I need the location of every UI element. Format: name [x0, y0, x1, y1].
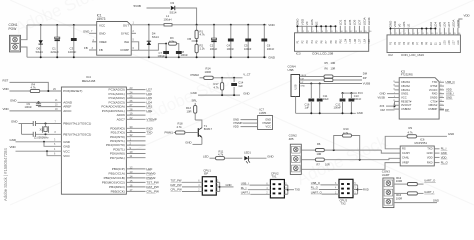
resistor R2	[195, 44, 198, 53]
svg-text:GND: GND	[63, 140, 71, 144]
svg-text:VDD: VDD	[441, 155, 447, 159]
svg-text:LED1: LED1	[244, 150, 251, 154]
IC1 pin OUT wire	[131, 24, 149, 26]
svg-text:LED: LED	[203, 154, 208, 158]
svg-text:CBUS1: CBUS1	[401, 88, 410, 92]
svg-text:FB: FB	[188, 37, 192, 41]
svg-text:MCP2551: MCP2551	[415, 141, 428, 145]
svg-text:GND: GND	[427, 151, 433, 155]
svg-text:LD5: LD5	[348, 19, 352, 25]
svg-text:T1: T1	[204, 124, 208, 128]
svg-text:ADC7: ADC7	[117, 117, 125, 121]
svg-text:CTS#: CTS#	[431, 99, 438, 103]
wire r13 to T1	[194, 113, 196, 120]
svg-text:R6: R6	[325, 67, 329, 71]
wire VIN top rail	[27, 24, 97, 26]
svg-text:PC6(/RESET): PC6(/RESET)	[63, 89, 82, 93]
svg-text:LEDA: LEDA	[452, 20, 456, 28]
svg-text:GND: GND	[267, 155, 273, 159]
svg-text:CON_LCD_1616: CON_LCD_1616	[401, 53, 424, 57]
svg-text:LD2: LD2	[429, 22, 433, 28]
svg-text:LEDA: LEDA	[362, 17, 366, 25]
svg-text:PB0(ICP): PB0(ICP)	[112, 167, 125, 171]
diode D6	[39, 40, 43, 44]
net 3V3 caps	[343, 92, 358, 94]
svg-text:VCC: VCC	[266, 124, 272, 128]
svg-text:LE: LE	[315, 22, 319, 26]
microcontroller IC4 body	[61, 87, 126, 194]
svg-text:LD6: LD6	[448, 40, 451, 45]
svg-text:GND: GND	[296, 18, 300, 26]
diode D3	[171, 6, 175, 10]
wire led2	[225, 157, 243, 159]
resistor R13	[194, 105, 197, 113]
svg-text:RTS#: RTS#	[431, 84, 438, 88]
svg-text:LD5: LD5	[349, 38, 352, 43]
svg-text:4.7k: 4.7k	[214, 86, 220, 90]
wire cpu3 rxd	[358, 189, 363, 191]
node gnd C1	[56, 56, 58, 58]
wire led3	[249, 157, 267, 159]
wire vcc pin4	[16, 150, 62, 152]
wire t1 gnd	[193, 143, 202, 145]
svg-text:100R: 100R	[396, 196, 403, 200]
svg-text:CANH: CANH	[402, 151, 410, 155]
node comp	[165, 43, 167, 45]
svg-text:PWM1: PWM1	[165, 130, 174, 134]
svg-text:DP: DP	[363, 76, 367, 80]
svg-text:R14: R14	[206, 66, 211, 70]
wire uart2b	[417, 192, 423, 194]
svg-text:UART: UART	[382, 173, 390, 177]
resistor R4	[30, 89, 40, 92]
svg-text:GND: GND	[265, 117, 271, 121]
wire usb dp2	[333, 79, 362, 81]
svg-text:LEDK: LEDK	[367, 17, 371, 25]
svg-text:GND: GND	[243, 92, 249, 96]
wire srl	[194, 103, 196, 105]
svg-text:SS14: SS14	[36, 50, 44, 54]
capacitor C13	[350, 93, 352, 98]
svg-text:DP: DP	[445, 108, 449, 112]
svg-text:100nF: 100nF	[267, 47, 275, 51]
svg-text:1uF: 1uF	[238, 84, 243, 88]
svg-text:100uF: 100uF	[210, 47, 218, 51]
wire D4 drop	[148, 25, 150, 57]
wire usb dm	[300, 76, 324, 78]
wire C3 drop	[73, 25, 75, 57]
svg-text:LD4: LD4	[344, 38, 347, 43]
svg-text:PD7(AIN1): PD7(AIN1)	[110, 156, 125, 160]
svg-text:CBUS2: CBUS2	[428, 103, 437, 107]
svg-text:100nF: 100nF	[354, 97, 362, 101]
svg-text:VREF: VREF	[99, 40, 107, 44]
svg-text:GND: GND	[185, 140, 191, 144]
svg-text:VTEMP: VTEMP	[146, 117, 156, 121]
svg-text:LD5: LD5	[444, 40, 447, 45]
svg-text:LD4: LD4	[343, 19, 347, 25]
wire gnd pin5	[44, 142, 61, 147]
svg-text:GND: GND	[83, 29, 89, 33]
svg-text:SYNC: SYNC	[121, 31, 129, 35]
IC1 pin SYNC stub	[131, 32, 136, 34]
capacitor C1	[55, 37, 60, 39]
svg-text:X1: X1	[40, 128, 44, 132]
node FB	[196, 40, 198, 42]
svg-text:CPL_PW: CPL_PW	[146, 189, 159, 193]
node gnd D4	[148, 56, 150, 58]
svg-text:VDD: VDD	[268, 23, 275, 27]
svg-text:3V3: 3V3	[358, 91, 363, 95]
wire AGND	[18, 101, 62, 103]
wire pwm gnd	[198, 94, 240, 96]
svg-text:R10: R10	[344, 127, 349, 131]
capacitor C12	[342, 93, 344, 98]
resistor R10	[334, 136, 342, 151]
connector CPU2	[270, 180, 284, 198]
svg-text:VUSB: VUSB	[363, 81, 371, 85]
wire 485 B3	[389, 158, 400, 159]
svg-text:OUT: OUT	[123, 23, 129, 27]
connector CPU3	[339, 179, 353, 197]
svg-text:4.7k: 4.7k	[169, 39, 175, 43]
svg-text:LD5: LD5	[438, 22, 442, 28]
svg-text:VDD: VDD	[464, 14, 470, 18]
svg-text:DAT_PW: DAT_PW	[146, 185, 159, 189]
svg-text:PB1(OC1A): PB1(OC1A)	[109, 172, 125, 176]
svg-text:100R: 100R	[205, 70, 212, 74]
node gnd D6	[40, 56, 42, 58]
svg-text:RXD: RXD	[363, 187, 369, 191]
svg-text:10uF: 10uF	[323, 97, 329, 101]
wire uart3	[394, 202, 437, 204]
svg-text:100pF: 100pF	[158, 54, 166, 58]
svg-text:LRE: LRE	[146, 109, 152, 113]
svg-text:VTEMP: VTEMP	[262, 121, 271, 125]
wire gnd rail bottom	[27, 56, 266, 58]
wire comp net	[139, 44, 166, 51]
svg-text:R6: R6	[317, 142, 321, 146]
wire uart2	[394, 192, 408, 194]
svg-text:VCC: VCC	[401, 95, 407, 99]
svg-text:GND: GND	[10, 138, 17, 142]
svg-text:P10: P10	[340, 38, 343, 43]
svg-text:CPL_PW: CPL_PW	[171, 188, 183, 192]
temp sensor IC7 body	[258, 116, 273, 130]
IC3 tie wire	[297, 25, 335, 27]
svg-text:GND: GND	[380, 92, 386, 96]
wire C1 drop	[56, 25, 58, 57]
resistor R16	[407, 192, 417, 195]
svg-text:CBUS3: CBUS3	[401, 80, 410, 84]
crystal X1	[44, 127, 47, 132]
svg-text:LD7: LD7	[447, 22, 451, 28]
svg-text:1.2k: 1.2k	[200, 47, 206, 51]
svg-text:GND: GND	[191, 91, 197, 95]
svg-text:SS14: SS14	[152, 35, 159, 39]
svg-text:GND: GND	[63, 144, 71, 148]
wire xtal row1	[19, 123, 34, 125]
svg-text:LEK: LEK	[368, 38, 371, 43]
svg-text:DAT_PW: DAT_PW	[171, 183, 183, 187]
svg-text:100nF: 100nF	[227, 47, 235, 51]
svg-text:LED: LED	[146, 167, 153, 171]
wire r18 to base	[185, 132, 198, 134]
svg-text:LD7: LD7	[453, 40, 456, 45]
node rail C3	[73, 24, 75, 26]
resistor R5	[324, 75, 333, 78]
resistor R18	[175, 131, 185, 134]
wire R4 to pin29	[40, 90, 62, 92]
connector CON3	[383, 178, 394, 208]
svg-text:100nF: 100nF	[334, 105, 342, 109]
capacitor C10	[32, 121, 34, 126]
wire led1	[210, 157, 216, 159]
svg-text:GND: GND	[441, 151, 447, 155]
svg-text:VREF: VREF	[402, 160, 409, 164]
svg-text:VDD: VDD	[3, 107, 9, 111]
IC2 pin stubs	[389, 28, 391, 35]
svg-text:R9: R9	[409, 126, 413, 130]
svg-text:VCCIO: VCCIO	[429, 88, 437, 92]
wire CON1-2 to gnd rail	[21, 47, 28, 57]
svg-text:USB_O: USB_O	[311, 181, 320, 185]
IC1 pin FB wire	[89, 49, 97, 51]
svg-text:COMP: COMP	[120, 48, 129, 52]
connector CON4 body	[291, 75, 300, 97]
svg-text:TXD: TXD	[146, 131, 153, 135]
svg-text:LD1: LD1	[338, 19, 342, 25]
svg-text:10R: 10R	[331, 61, 336, 65]
svg-text:GND: GND	[300, 85, 305, 87]
svg-text:C14: C14	[238, 80, 243, 84]
svg-text:V_CT: V_CT	[243, 73, 250, 77]
wire AREF	[44, 106, 61, 108]
svg-text:R5: R5	[325, 61, 329, 65]
wire r14 out	[213, 77, 242, 79]
resistor R17	[221, 78, 223, 82]
svg-text:INH: INH	[124, 40, 129, 44]
svg-text:LM35: LM35	[259, 111, 266, 115]
wire cpu1 gnd	[220, 186, 234, 188]
connector CPU1	[202, 177, 216, 195]
resistor R12	[407, 183, 417, 186]
svg-text:USBDM: USBDM	[401, 107, 411, 111]
resistor R6	[315, 149, 324, 152]
svg-text:LD7: LD7	[358, 19, 362, 25]
capacitor C4	[230, 24, 232, 26]
svg-text:LRS: LRS	[402, 22, 406, 28]
wire CON1-1 to rail	[21, 25, 28, 40]
node rail C1	[56, 24, 58, 26]
svg-text:R17: R17	[214, 82, 219, 86]
svg-text:220uF: 220uF	[51, 50, 60, 54]
svg-text:4.7k: 4.7k	[200, 33, 206, 37]
svg-text:Adobe Stock | #1580547284: Adobe Stock | #1580547284	[3, 148, 8, 201]
svg-text:LD6: LD6	[443, 22, 447, 28]
svg-text:100nF: 100nF	[68, 50, 77, 54]
svg-text:VUSB: VUSB	[378, 95, 386, 99]
svg-text:GND: GND	[10, 98, 17, 102]
capacitor C7	[165, 44, 167, 58]
wire VDD to R4	[10, 90, 31, 92]
svg-text:GND1: GND1	[401, 92, 409, 96]
svg-text:VDD: VDD	[10, 145, 16, 149]
capacitor C9	[38, 102, 40, 103]
svg-text:VCC: VCC	[99, 23, 105, 27]
svg-text:USB_I: USB_I	[446, 92, 454, 96]
connector CON2	[290, 144, 301, 174]
svg-text:TST_PW: TST_PW	[171, 179, 182, 183]
wire xtal row2	[22, 133, 34, 135]
CPU3 right tie	[353, 184, 358, 186]
svg-text:LD6: LD6	[354, 38, 357, 43]
svg-text:SRL: SRL	[192, 99, 198, 103]
svg-text:POW: POW	[9, 27, 18, 31]
resistor R7	[315, 158, 324, 161]
wire uart1	[394, 183, 408, 185]
svg-text:TXD: TXD	[432, 80, 437, 84]
connector IC2 body	[387, 35, 460, 53]
svg-text:CANL: CANL	[402, 155, 410, 159]
node rail D6	[40, 24, 42, 26]
wire FB drop	[196, 25, 198, 57]
svg-text:LEA: LEA	[457, 40, 460, 45]
wire AVCC	[10, 110, 62, 112]
wire usb gnd drop	[295, 97, 297, 114]
node out D4	[148, 24, 150, 26]
svg-text:FT232RS: FT232RS	[401, 73, 413, 77]
svg-text:DM: DM	[381, 108, 386, 112]
svg-text:R7: R7	[317, 162, 321, 166]
svg-text:100R: 100R	[396, 179, 403, 183]
transistor T1	[197, 128, 199, 137]
svg-text:3V3OUT: 3V3OUT	[401, 103, 412, 107]
svg-text:4.7k: 4.7k	[177, 125, 183, 129]
svg-text:VCC: VCC	[63, 149, 70, 153]
wire usb dp	[300, 79, 324, 81]
diode D4	[147, 41, 151, 45]
svg-text:FB: FB	[84, 46, 88, 50]
wire usb dm2	[333, 76, 362, 78]
connector CON1	[10, 35, 21, 52]
node out main	[196, 24, 198, 26]
node gnd R2	[196, 56, 198, 58]
svg-text:FB: FB	[99, 48, 103, 52]
resistor R1	[195, 30, 198, 39]
svg-text:RL_O: RL_O	[311, 186, 318, 190]
IC3 pin stubs	[296, 26, 298, 33]
svg-text:GND: GND	[233, 117, 239, 121]
IC4 right pin stubs and nets	[126, 89, 145, 91]
IC1 pin VREF stub	[92, 41, 97, 43]
capacitor C11	[319, 84, 321, 99]
svg-text:TX1: TX1	[271, 174, 277, 178]
wire pwm1	[174, 132, 176, 134]
svg-text:VCC: VCC	[63, 154, 70, 158]
wire gnd pin3	[16, 141, 62, 143]
wire usb vbus	[300, 83, 363, 85]
svg-text:10R: 10R	[331, 67, 336, 71]
wire usb gnd rail	[296, 112, 356, 114]
svg-text:10R: 10R	[187, 109, 192, 113]
wire 485 gnd	[301, 163, 400, 170]
svg-text:GND: GND	[268, 55, 276, 59]
svg-text:CON_LCD_208: CON_LCD_208	[312, 52, 334, 56]
wire r9 gnd	[417, 135, 447, 137]
capacitor C2	[213, 24, 215, 26]
wire r9 left	[385, 136, 407, 149]
op-amp U1 IC1 body	[97, 22, 132, 56]
svg-text:USB_O: USB_O	[446, 80, 455, 84]
svg-text:VDD: VDD	[233, 124, 239, 128]
svg-text:RXD: RXD	[432, 92, 438, 96]
svg-text:3V3: 3V3	[380, 104, 385, 108]
svg-text:USB: USB	[295, 84, 298, 89]
svg-text:USBDP: USBDP	[428, 107, 437, 111]
can IC6 body	[400, 146, 434, 166]
svg-text:GND: GND	[448, 132, 454, 136]
svg-text:RS: RS	[402, 147, 406, 151]
svg-text:VDD: VDD	[300, 18, 304, 25]
svg-text:4.7k: 4.7k	[408, 130, 414, 134]
svg-text:100uH: 100uH	[164, 17, 172, 21]
svg-text:DM: DM	[363, 71, 368, 75]
svg-text:PB6(XTAL1/TOSC1): PB6(XTAL1/TOSC1)	[63, 122, 91, 126]
wire 485 B2	[324, 159, 389, 161]
svg-text:CBUS2: CBUS2	[401, 84, 410, 88]
svg-text:PWM2: PWM2	[146, 176, 155, 180]
wire RST	[10, 82, 49, 91]
IC2 tie wire	[390, 28, 435, 30]
svg-text:PWM2: PWM2	[191, 73, 200, 77]
resistor R9	[407, 135, 417, 138]
svg-text:GND: GND	[389, 20, 393, 28]
wire 485 B	[301, 159, 315, 161]
LED LED1	[244, 156, 248, 160]
wire 5V0B	[147, 7, 171, 9]
svg-text:D3: D3	[171, 1, 175, 5]
svg-text:BC817: BC817	[204, 127, 213, 131]
IC1 pin INH wire	[131, 42, 139, 50]
svg-text:VTEMP: VTEMP	[233, 121, 243, 125]
svg-text:LE: LE	[407, 24, 411, 28]
IC6 right stubs	[434, 148, 439, 150]
resistor R11	[216, 157, 225, 160]
wire xtal gnd vertical	[21, 124, 23, 135]
svg-text:PB5(SCK): PB5(SCK)	[111, 190, 125, 194]
resistor R3	[169, 42, 177, 45]
capacitor C6	[263, 24, 265, 26]
svg-text:USB: USB	[288, 68, 294, 72]
svg-text:4.7k: 4.7k	[218, 153, 224, 157]
svg-text:UART_O: UART_O	[424, 179, 435, 183]
svg-text:PB7(XTAL2/TOSC2): PB7(XTAL2/TOSC2)	[63, 132, 91, 136]
svg-text:100nF: 100nF	[25, 105, 33, 109]
IC5 pin stubs	[395, 81, 400, 83]
resistor R14	[204, 76, 214, 79]
svg-text:GND: GND	[433, 199, 439, 203]
svg-text:TST_PW: TST_PW	[146, 180, 158, 184]
svg-text:UART_I: UART_I	[424, 190, 434, 194]
capacitor C16	[310, 84, 312, 99]
svg-text:L5973: L5973	[97, 17, 106, 21]
wire 485 A3	[381, 150, 400, 153]
svg-text:R13: R13	[186, 106, 191, 110]
wire 485 A2	[324, 149, 381, 151]
capacitor C11x	[32, 132, 34, 137]
svg-text:TX2: TX2	[341, 202, 347, 206]
